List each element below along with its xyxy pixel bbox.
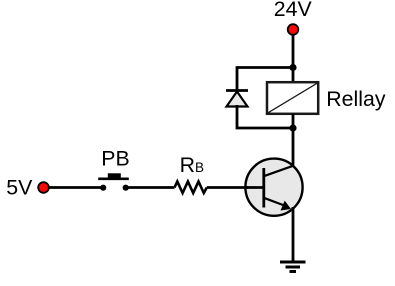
wire emitter to ground <box>292 207 295 262</box>
wire diode anode to bottom junction <box>237 105 293 128</box>
wire 24V terminal to top junction <box>292 35 295 82</box>
wire resistor to transistor base <box>207 186 248 189</box>
svg-text:PB: PB <box>101 147 129 171</box>
wire top junction to diode cathode <box>237 68 293 91</box>
wire 5V terminal to push button <box>49 186 103 189</box>
wire bottom junction to collector <box>292 128 295 168</box>
diode D1 flyback <box>226 91 248 107</box>
svg-text:5V: 5V <box>6 176 33 200</box>
terminal 24V <box>288 24 299 35</box>
junction bottom <box>289 124 296 131</box>
wire relay bottom to bottom junction <box>292 114 295 128</box>
relay coil K1 <box>267 82 318 114</box>
ground <box>280 262 306 272</box>
wire push button to resistor <box>126 186 175 189</box>
terminal 5V <box>38 182 49 193</box>
svg-text:Rellay: Rellay <box>326 87 386 111</box>
push button PB <box>98 173 129 190</box>
junction top <box>289 64 296 71</box>
resistor RB <box>175 182 207 194</box>
svg-text:24V: 24V <box>274 0 313 21</box>
transistor Q1 NPN <box>245 159 303 216</box>
